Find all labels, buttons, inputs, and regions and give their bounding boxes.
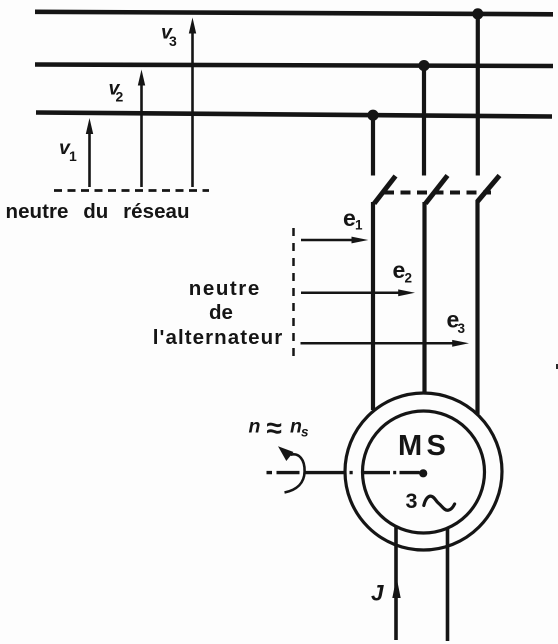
arrow e1 (emf phase 1) — [301, 237, 368, 244]
arrow v2 (phase 2 voltage) — [138, 70, 145, 188]
svg-text:neutre: neutre — [189, 277, 260, 300]
arrow: rotation arc n — [278, 446, 305, 492]
wire: drop B lower segment (switch 2 to machine) — [422, 202, 426, 394]
svg-text:3: 3 — [458, 321, 466, 336]
switch S3 blade — [478, 176, 500, 202]
arrow e2 (emf phase 2) — [301, 289, 415, 296]
wire: bus line phase 2 (middle) — [35, 65, 553, 67]
svg-text:l'alternateur: l'alternateur — [153, 326, 283, 349]
wire: dashed alternator-neutral reference line — [292, 228, 295, 363]
wire: dash-dot shaft axis line — [267, 471, 420, 474]
wire: bus line phase 1 (top) — [35, 12, 553, 15]
machine MS outer circle (stator) — [345, 393, 502, 550]
wire: drop C upper segment (from bus 1 to switch 3) — [476, 14, 480, 176]
arrow v3 (phase 3 voltage) — [189, 18, 196, 188]
svg-text:1: 1 — [69, 148, 77, 164]
svg-text:de: de — [209, 301, 233, 324]
label: neutre de l'alternateur — [153, 277, 283, 349]
wire: dashed network-neutral reference line — [54, 189, 209, 192]
arrow v1 (phase 1 voltage) — [86, 118, 93, 187]
wire: drop A lower segment (switch 1 to machine) — [371, 202, 375, 410]
svg-text:n: n — [249, 415, 261, 437]
node: junction dot phase 2 / drop B — [418, 60, 429, 71]
svg-text:1: 1 — [355, 218, 363, 233]
svg-text:neutre du réseau: neutre du réseau — [6, 200, 190, 223]
arrow e3 (emf phase 3) — [301, 340, 470, 347]
wire: excitation lead right — [446, 528, 450, 641]
symbol: sine wave (AC) — [424, 496, 455, 510]
svg-text:2: 2 — [405, 271, 413, 286]
svg-text:M: M — [398, 430, 422, 462]
node: shaft center dot — [419, 469, 427, 477]
arrow J (excitation current, pointing up) — [392, 577, 400, 598]
switch S2 blade — [426, 176, 448, 204]
wire: drop B upper segment (from bus 2 to switch 2) — [422, 65, 426, 176]
wire: excitation lead left (with J) — [394, 526, 398, 640]
node: junction dot phase 3 / drop A — [367, 110, 378, 121]
svg-text:≈: ≈ — [267, 413, 282, 444]
wire: bus line phase 3 (bottom) — [36, 113, 552, 117]
svg-text:e: e — [343, 205, 356, 231]
svg-text:J: J — [371, 580, 384, 605]
node: junction dot phase 1 / drop C — [472, 8, 483, 19]
svg-text:2: 2 — [116, 89, 124, 105]
switch S1 blade — [374, 176, 395, 204]
svg-text:3: 3 — [406, 489, 418, 513]
svg-text:3: 3 — [169, 33, 177, 49]
svg-text:S: S — [427, 430, 446, 462]
dashed mechanical link between switch blades — [384, 191, 491, 195]
machine MS inner circle (rotor) — [363, 411, 485, 533]
stray ink mark at right edge — [556, 364, 558, 369]
wire: drop C lower segment (switch 3 to machine) — [475, 200, 479, 414]
svg-text:e: e — [393, 257, 406, 283]
svg-text:s: s — [301, 425, 309, 440]
wire: drop A upper segment (from bus 3 to switch 1) — [371, 115, 375, 176]
